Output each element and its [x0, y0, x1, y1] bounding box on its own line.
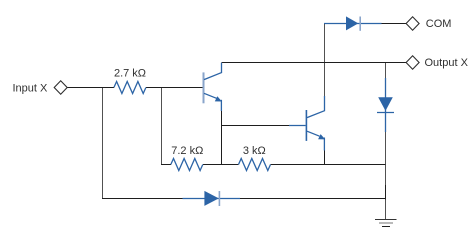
wire Q1 emitter vertical [221, 111, 223, 165]
diode D3 [183, 191, 241, 206]
svg-text:2.7 kΩ: 2.7 kΩ [114, 68, 146, 80]
wire Q2 emitter vertical [324, 151, 326, 165]
node Input X connector [54, 81, 67, 94]
svg-text:Input X: Input X [13, 82, 49, 94]
wire right vertical junction segment [385, 185, 387, 200]
wire right vertical upper [385, 132, 387, 185]
wire bottom row right [240, 198, 386, 200]
node COM connector [406, 17, 419, 30]
svg-text:Output X: Output X [425, 57, 469, 69]
diode D1 [324, 16, 382, 30]
wire resistor row right [271, 164, 386, 166]
diode D2 [377, 78, 394, 132]
resistor R2 [171, 159, 203, 171]
resistor R1 [114, 82, 146, 94]
wire Q2 base [222, 125, 306, 127]
wire output row [222, 62, 407, 64]
wire 7.2k branch vertical [161, 88, 163, 165]
svg-text:7.2 kΩ: 7.2 kΩ [171, 145, 203, 157]
ground [375, 220, 396, 227]
svg-text:COM: COM [426, 18, 452, 30]
resistor R3 [239, 159, 271, 171]
wire input row left [67, 87, 114, 89]
wire D1 to COM connector [382, 23, 407, 25]
svg-text:3 kΩ: 3 kΩ [243, 145, 266, 157]
transistor Q1 [204, 63, 222, 111]
wire resistor row middle [203, 164, 239, 166]
wire bottom row left [102, 198, 183, 200]
transistor Q2 [306, 96, 325, 151]
wire output row to D2 [385, 63, 387, 79]
node Output X connector [406, 56, 419, 69]
wire Q2 collector vertical [324, 23, 326, 96]
wire input row right [146, 87, 203, 89]
wire left vertical [102, 88, 104, 199]
wire 7.2k branch corner [161, 164, 171, 166]
wire right vertical lower [385, 200, 387, 220]
